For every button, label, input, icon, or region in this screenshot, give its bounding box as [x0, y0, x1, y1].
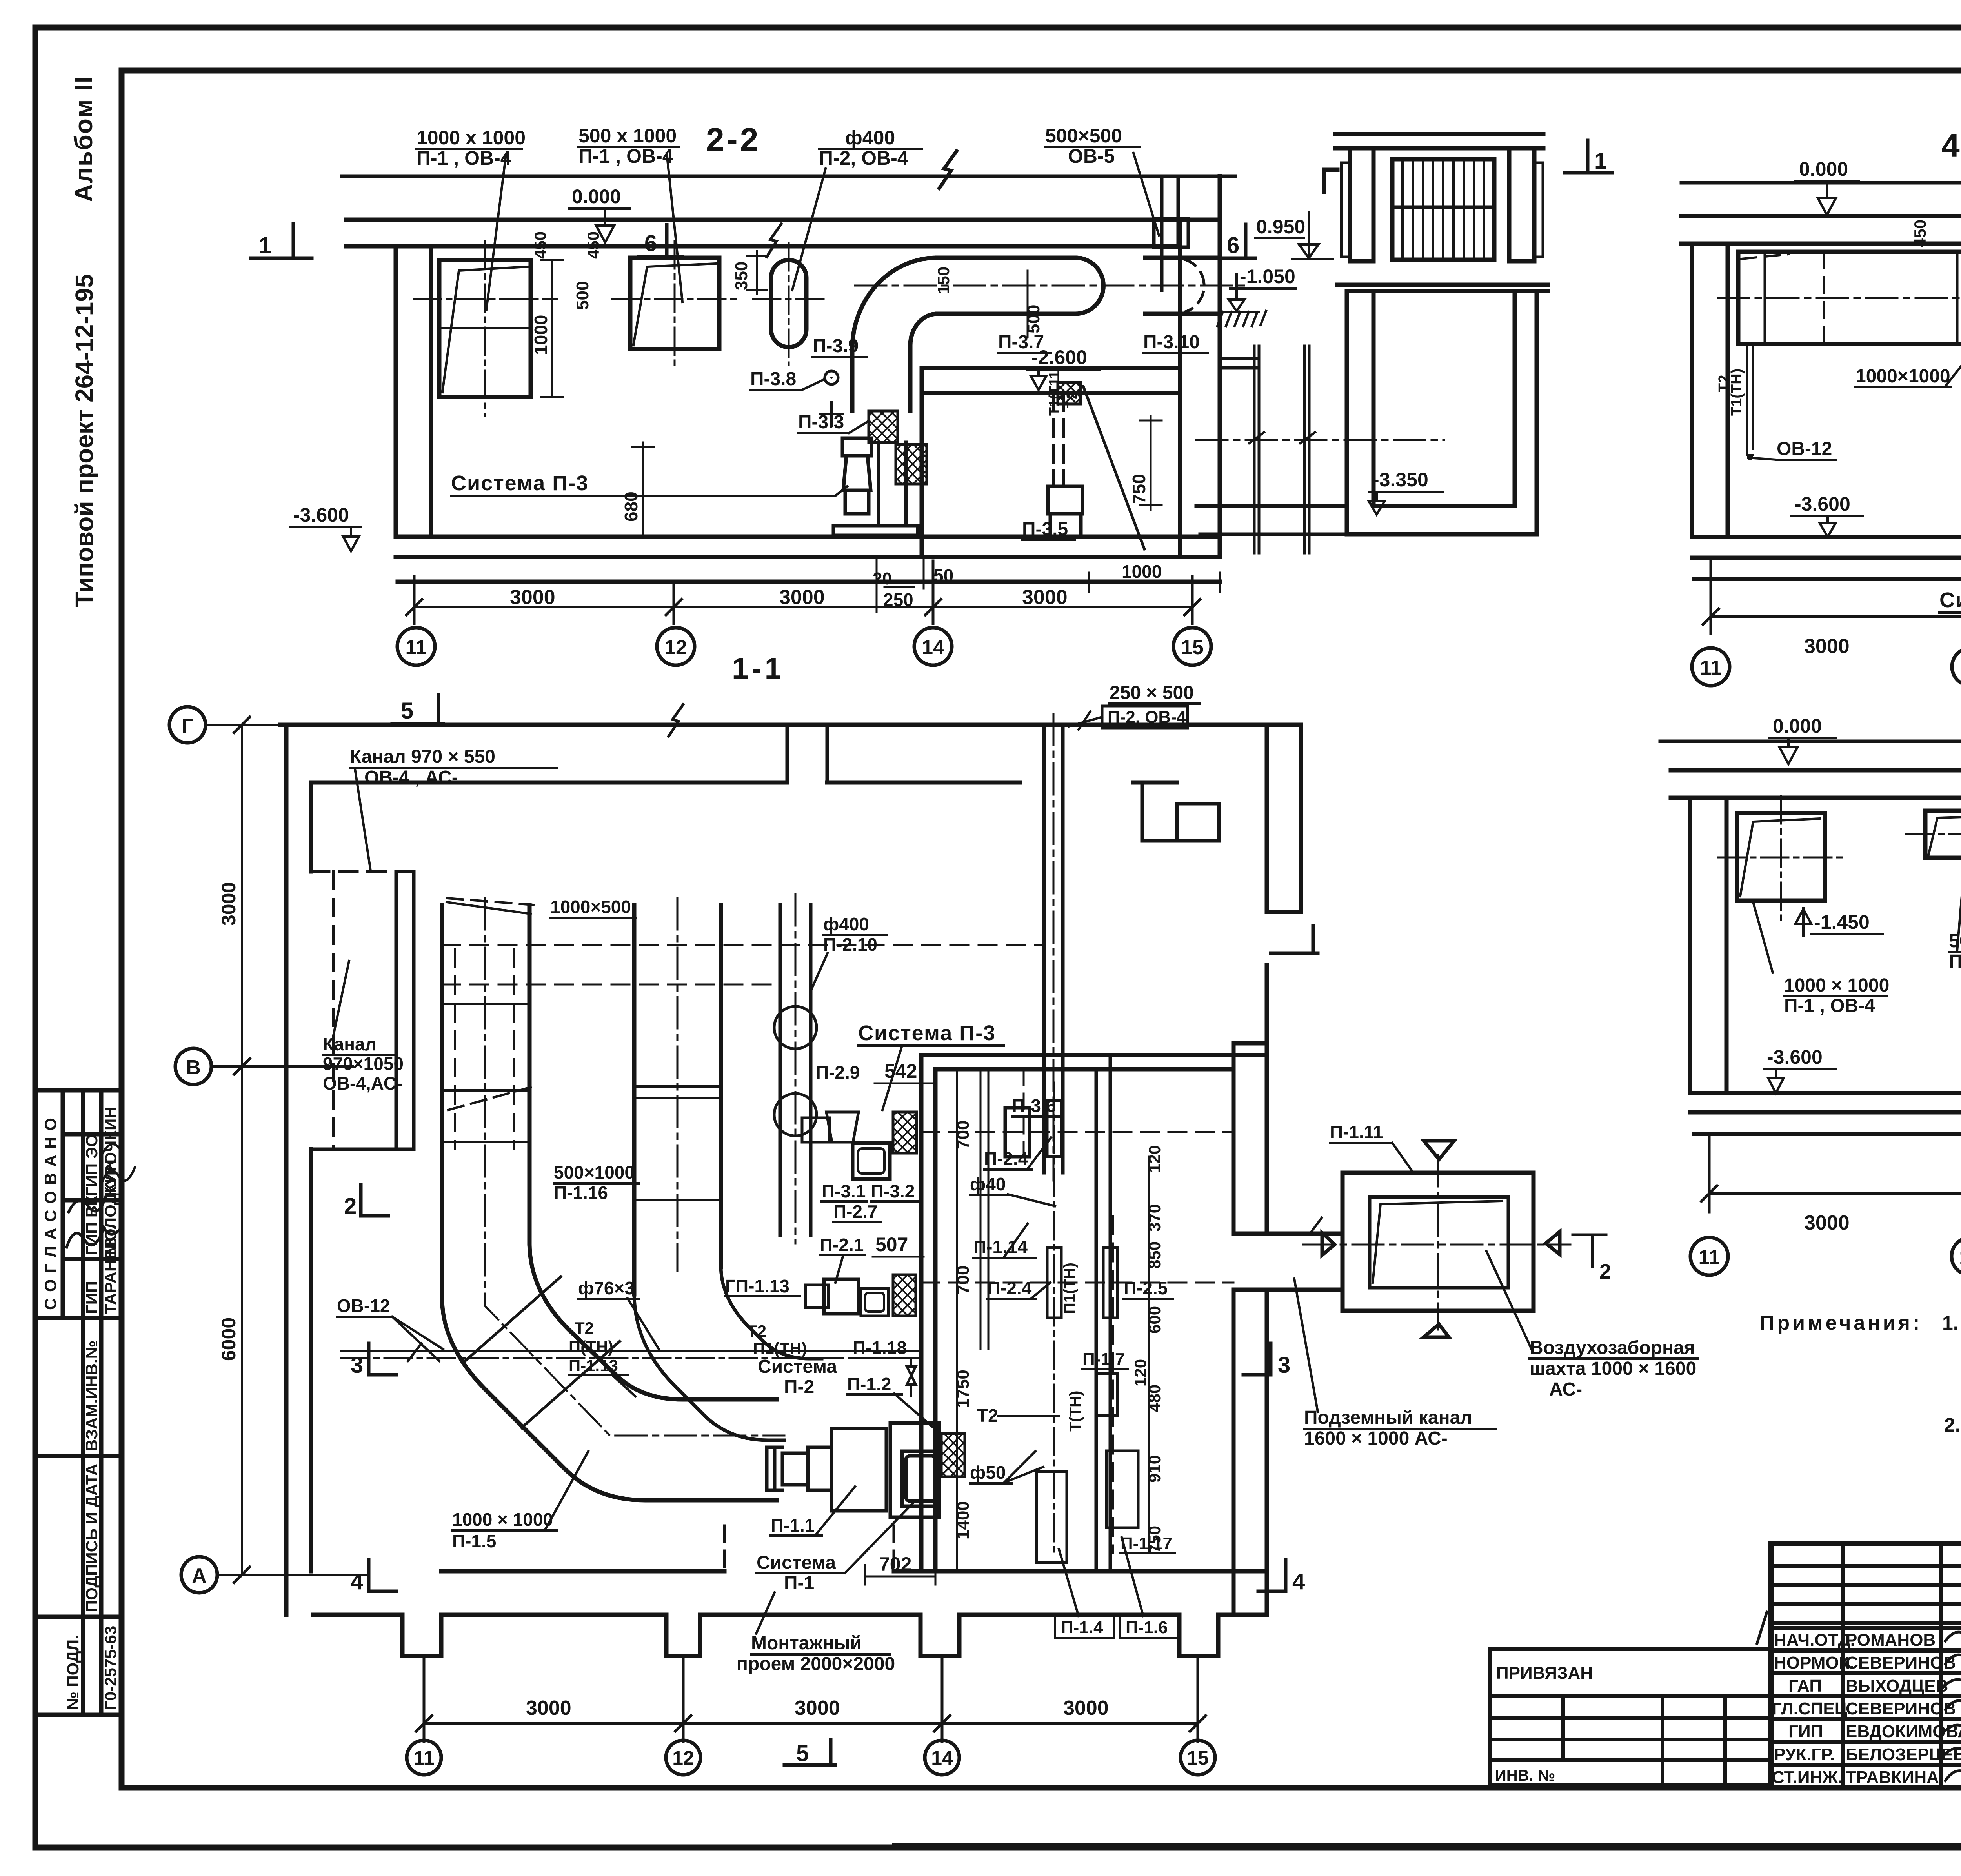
svg-text:П-2, ОВ-4: П-2, ОВ-4: [819, 147, 908, 169]
svg-text:50: 50: [933, 565, 953, 586]
svg-text:П-1 , ОВ-4: П-1 , ОВ-4: [417, 147, 511, 169]
svg-text:ГЛ.СПЕЦ.: ГЛ.СПЕЦ.: [1772, 1699, 1852, 1718]
svg-text:П-1.7: П-1.7: [1082, 1350, 1124, 1369]
svg-text:0.000: 0.000: [1773, 715, 1822, 737]
svg-text:-3.350: -3.350: [1373, 469, 1428, 491]
svg-text:370: 370: [1145, 1204, 1164, 1232]
svg-text:3000: 3000: [526, 1697, 571, 1720]
svg-text:1: 1: [1594, 148, 1607, 174]
left cut arrow: [1322, 1233, 1335, 1255]
filter hatch lower: [893, 1275, 916, 1316]
svg-text:ф400: ф400: [845, 127, 895, 149]
svg-text:2: 2: [344, 1194, 357, 1219]
svg-text:2: 2: [1599, 1260, 1611, 1283]
right room equipment: [1005, 1108, 1030, 1157]
svg-text:Примечания:: Примечания:: [1760, 1312, 1922, 1334]
OV-12 pipe: [1747, 344, 1753, 455]
top wall inner line: [311, 781, 1177, 785]
svg-text:600: 600: [1145, 1306, 1164, 1334]
svg-text:15: 15: [1181, 636, 1204, 659]
bottom triangle: [1424, 1324, 1449, 1337]
svg-text:1000 x 1000: 1000 x 1000: [417, 127, 526, 149]
svg-text:542: 542: [884, 1060, 917, 1082]
svg-text:П-2, ОВ-4: П-2, ОВ-4: [1108, 708, 1186, 727]
svg-text:15: 15: [1187, 1747, 1209, 1769]
slab break symbol: [767, 224, 781, 257]
svg-text:П-3.6: П-3.6: [1012, 1095, 1056, 1116]
svg-text:3: 3: [351, 1352, 363, 1378]
dim 1000 for intake1: [541, 260, 563, 397]
svg-text:2. ДАННЫЙ ЛИСТ РАССМАТРИВАТЬ: 2. ДАННЫЙ ЛИСТ РАССМАТРИВАТЬ СОВМЕСТНО: [1944, 1414, 1961, 1436]
svg-text:Воздухозаборная: Воздухозаборная: [1530, 1337, 1695, 1358]
svg-text:5: 5: [796, 1741, 809, 1766]
svg-text:П-2.10: П-2.10: [823, 934, 877, 955]
floor: [1690, 1093, 1961, 1134]
slab -2.600 of right room: [922, 368, 1180, 393]
centerlines: [1303, 1244, 1570, 1246]
svg-text:11: 11: [406, 636, 427, 659]
svg-text:1400: 1400: [953, 1501, 973, 1539]
P-3.5 boxes: [1048, 486, 1082, 514]
svg-text:20: 20: [873, 569, 892, 588]
flange circles: [774, 1006, 817, 1049]
shaft inner rect: [1370, 1197, 1508, 1288]
extra dashed axis in right room: [1023, 1069, 1025, 1157]
svg-text:Система: Система: [758, 1356, 837, 1377]
svg-text:500×500: 500×500: [1045, 125, 1122, 147]
dashed niche outline: [1741, 254, 1788, 259]
svg-text:П-2.5: П-2.5: [1124, 1278, 1168, 1298]
big duct bend: [442, 1298, 777, 1500]
filter P-3.3 hatched: [869, 411, 898, 442]
svg-text:П-3.8: П-3.8: [750, 369, 796, 389]
label f400 / P-2,OV-4: [819, 127, 908, 169]
svg-text:5: 5: [401, 698, 413, 724]
svg-text:П-1.5: П-1.5: [452, 1531, 496, 1551]
svg-text:1-1: 1-1: [732, 652, 784, 685]
floor: [1692, 537, 1961, 579]
side strips: [1341, 163, 1349, 257]
svg-text:П-1.1: П-1.1: [771, 1515, 815, 1536]
svg-text:Система П-1: Система П-1: [1939, 588, 1961, 612]
svg-text:ГП-1.13: ГП-1.13: [725, 1276, 789, 1296]
label 500x1000 / P-1, OV-4: [1949, 931, 1961, 972]
duct elbow vertical walls: [852, 345, 910, 411]
dim labels 3000: [1804, 1212, 1961, 1234]
svg-text:-3.600: -3.600: [1795, 493, 1850, 515]
svg-text:120: 120: [1145, 1145, 1164, 1173]
svg-text:12: 12: [1959, 1246, 1961, 1269]
svg-text:проем 2000×2000: проем 2000×2000: [737, 1654, 895, 1674]
svg-text:П-1.11: П-1.11: [1330, 1122, 1383, 1142]
duct P-1.16 bend: [634, 1294, 784, 1440]
plan axis circles: [407, 1740, 1215, 1775]
svg-text:12: 12: [672, 1747, 694, 1769]
roof line: [1681, 181, 1961, 185]
axis letter circle A: [181, 1557, 217, 1593]
label 500x1000 / P-1,OV-4: [578, 125, 677, 167]
filter hatch at fan outlet: [941, 1434, 965, 1477]
underground shaft walls: [1347, 291, 1537, 534]
svg-text:350: 350: [732, 262, 751, 290]
svg-text:450: 450: [584, 231, 602, 259]
left wall: [1692, 244, 1728, 537]
svg-text:1000: 1000: [531, 315, 551, 355]
duct f400 P-2.10: [780, 905, 811, 1236]
right wall segments: [1267, 725, 1301, 912]
svg-text:№ ПОДЛ.: № ПОДЛ.: [64, 1635, 82, 1710]
axis letter circle V: [175, 1048, 211, 1084]
slab 0.000 band: [1681, 216, 1961, 244]
shaft top cap: [1335, 134, 1543, 148]
svg-text:850: 850: [1145, 1241, 1164, 1269]
horizontal duct OV-5: [937, 258, 1075, 314]
axis circles: [1690, 1237, 1961, 1275]
signatures (squiggles): [1757, 1612, 1961, 1782]
dim 680: [632, 442, 654, 535]
channel centerline: [1196, 439, 1444, 441]
left post: [1350, 148, 1373, 261]
svg-text:СТ.ИНЖ.: СТ.ИНЖ.: [1772, 1768, 1843, 1787]
svg-text:Т2: Т2: [1064, 391, 1080, 408]
svg-text:В: В: [186, 1056, 201, 1079]
label 500x500 / OV-5: [1045, 125, 1122, 167]
title block outer: [1771, 1543, 1961, 1788]
svg-text:ГИП: ГИП: [82, 1281, 101, 1314]
building wall stub left: [1221, 358, 1256, 368]
P-3.5 hatch box: [1058, 382, 1081, 404]
svg-text:750: 750: [1145, 1526, 1164, 1553]
svg-text:ф400: ф400: [823, 914, 869, 934]
svg-text:970×1050: 970×1050: [323, 1054, 404, 1074]
svg-text:Подземный канал: Подземный канал: [1304, 1407, 1472, 1428]
svg-text:Система П-3: Система П-3: [858, 1021, 996, 1045]
svg-text:3000: 3000: [1022, 586, 1068, 609]
hidden canal dashed inside big duct: [455, 949, 514, 1149]
svg-text:СЕВЕРИНОВ: СЕВЕРИНОВ: [1846, 1653, 1956, 1672]
svg-text:480: 480: [1145, 1385, 1164, 1412]
svg-text:П-2.4: П-2.4: [988, 1278, 1032, 1298]
svg-text:П-1.14: П-1.14: [973, 1237, 1028, 1257]
duct f400 capsule: [771, 260, 806, 347]
staff captions: [1772, 1630, 1961, 1787]
axis letter circle G: [169, 707, 206, 743]
bend centerline: [485, 898, 784, 1436]
svg-text:4-4: 4-4: [1941, 127, 1961, 164]
svg-text:ф50: ф50: [970, 1462, 1006, 1483]
fan P-3 unit: [833, 438, 918, 535]
right cut arrow + T2: [1546, 1232, 1560, 1254]
ground hatch right: [1217, 311, 1266, 326]
svg-text:-1.450: -1.450: [1814, 911, 1870, 933]
svg-text:П-2: П-2: [784, 1377, 814, 1397]
shaft sill: [1337, 285, 1548, 291]
svg-text:П-2.9: П-2.9: [816, 1062, 860, 1083]
svg-text:П-1.6: П-1.6: [1126, 1618, 1168, 1637]
main dimension line: [414, 606, 1192, 608]
P-3.5 pipes: [1053, 393, 1064, 486]
svg-text:НАЧ.ОТД.: НАЧ.ОТД.: [1774, 1630, 1855, 1650]
svg-text:П-1 , ОВ-4: П-1 , ОВ-4: [578, 145, 673, 167]
svg-text:6000: 6000: [218, 1317, 240, 1361]
svg-text:ПРИВЯЗАН: ПРИВЯЗАН: [1496, 1663, 1593, 1683]
svg-text:АС-: АС-: [1549, 1379, 1582, 1400]
roof line: [1660, 740, 1961, 743]
svg-text:0.950: 0.950: [1256, 216, 1305, 238]
roof line: [342, 175, 1235, 178]
svg-text:2-2: 2-2: [706, 121, 760, 158]
elbow arcs: [852, 258, 937, 349]
underground channel walls: [1254, 346, 1309, 553]
shaft outer rect: [1343, 1173, 1534, 1311]
svg-text:1000 × 1000: 1000 × 1000: [1784, 975, 1889, 996]
main dimension line: [1711, 615, 1961, 618]
svg-text:3000: 3000: [1804, 1212, 1850, 1234]
filter 2 hatched: [896, 444, 927, 484]
svg-text:14: 14: [931, 1747, 953, 1769]
svg-text:507: 507: [875, 1234, 908, 1256]
svg-text:3000: 3000: [1063, 1697, 1109, 1720]
svg-text:3000: 3000: [795, 1697, 840, 1720]
svg-text:1750: 1750: [953, 1370, 973, 1408]
svg-text:-3.600: -3.600: [1767, 1046, 1823, 1068]
left wall: [1690, 798, 1726, 1093]
right wall: [1180, 176, 1220, 557]
svg-text:ОВ-4 , АС-: ОВ-4 , АС-: [364, 767, 458, 788]
svg-text:П1(ТН): П1(ТН): [753, 1339, 807, 1357]
shaft bottom slab: [1347, 506, 1537, 534]
slab band: [1671, 770, 1961, 798]
svg-text:П-1 , ОВ-4: П-1 , ОВ-4: [1784, 995, 1875, 1016]
svg-text:П-1: П-1: [784, 1573, 814, 1594]
svg-text:910: 910: [1145, 1455, 1164, 1483]
intake box B: [1925, 811, 1961, 858]
svg-text:ВЗАМ.ИНВ.№: ВЗАМ.ИНВ.№: [82, 1341, 101, 1451]
bend miter joints: [463, 1277, 620, 1428]
svg-text:700: 700: [953, 1266, 973, 1294]
svg-text:СЕВЕРИНОВ: СЕВЕРИНОВ: [1846, 1699, 1956, 1718]
svg-text:450: 450: [1911, 220, 1929, 247]
section mark 1 top right of plan: [1271, 926, 1318, 953]
svg-text:Система: Система: [757, 1552, 836, 1573]
staff table verticals: [1841, 1543, 1845, 1788]
svg-text:3000: 3000: [1804, 635, 1850, 658]
big duct P-1.5 vertical: [442, 905, 529, 1298]
svg-text:шахта 1000 × 1600: шахта 1000 × 1600: [1530, 1358, 1696, 1379]
svg-text:1: 1: [259, 233, 271, 258]
break marks: [1249, 432, 1315, 443]
right post: [1509, 148, 1534, 261]
niche right top: [1142, 782, 1219, 841]
floor slab 0.000: [346, 220, 1220, 246]
channel floor lines: [1196, 506, 1347, 534]
svg-text:ф40: ф40: [970, 1174, 1006, 1194]
svg-text:ИНВ. №: ИНВ. №: [1495, 1767, 1555, 1784]
dims right room column 2: [1148, 1157, 1150, 1553]
svg-text:А: А: [192, 1565, 207, 1587]
svg-text:ф76×3: ф76×3: [578, 1278, 635, 1298]
svg-text:-1.050: -1.050: [1240, 266, 1295, 287]
duct P-1.16 vertical: [634, 905, 721, 1294]
roof break symbol: [939, 151, 957, 188]
fan P-1.1 assembly: [767, 1423, 939, 1517]
svg-text:700: 700: [953, 1121, 973, 1149]
right room walls: [921, 1055, 935, 1571]
svg-text:120: 120: [1131, 1359, 1150, 1387]
label 1000x1000 / P-1,OV-4: [417, 127, 526, 169]
big duct 1000x1000: [1738, 252, 1961, 344]
vertical duct through roof at right: [1162, 176, 1178, 290]
svg-text:12: 12: [1959, 657, 1961, 679]
svg-text:Альбом ІІ: Альбом ІІ: [69, 75, 98, 202]
svg-text:1. ВСЕ МЕТАЛЛИЧЕСКИЕ ЧАСТИ: 1. ВСЕ МЕТАЛЛИЧЕСКИЕ ЧАСТИ УСТАНОВОК: [1942, 1312, 1961, 1334]
svg-text:С О Г Л А С О В А Н О: С О Г Л А С О В А Н О: [41, 1117, 60, 1310]
main dimension line: [1709, 1192, 1961, 1195]
svg-text:0.000: 0.000: [1799, 158, 1848, 180]
svg-text:Т2: Т2: [977, 1405, 998, 1426]
svg-text:НОРМОК.: НОРМОК.: [1774, 1653, 1854, 1672]
svg-text:500×1000: 500×1000: [554, 1162, 635, 1183]
air intake box 2: [630, 258, 719, 349]
svg-text:П-3.5: П-3.5: [1022, 519, 1068, 540]
svg-text:П-1.16: П-1.16: [554, 1183, 608, 1203]
svg-text:150: 150: [934, 267, 953, 294]
left table signatures: [67, 1196, 120, 1247]
svg-text:П-3.1: П-3.1: [822, 1181, 866, 1201]
axis circles: [397, 628, 1211, 665]
left wall: [396, 246, 431, 537]
svg-text:ОВ-12: ОВ-12: [1777, 439, 1832, 459]
bottom wall outer with pilasters: [313, 1615, 1267, 1656]
svg-text:1000: 1000: [1122, 561, 1162, 582]
section mark 1 top-left: [251, 224, 312, 258]
svg-text:Т(ТН): Т(ТН): [1067, 1391, 1084, 1432]
svg-text:11: 11: [1700, 657, 1722, 679]
filter hatch upper: [893, 1112, 917, 1153]
svg-text:П-3.3: П-3.3: [798, 412, 844, 433]
svg-text:П-2.4: П-2.4: [984, 1148, 1028, 1169]
svg-text:Т2: Т2: [575, 1319, 594, 1337]
svg-text:ОВ-5: ОВ-5: [1068, 145, 1115, 167]
svg-text:3: 3: [1278, 1352, 1290, 1378]
dims right room column 1: [956, 1069, 958, 1571]
svg-text:ГИП: ГИП: [1788, 1722, 1823, 1741]
svg-text:250 × 500: 250 × 500: [1110, 682, 1194, 703]
svg-text:П-2.7: П-2.7: [833, 1201, 877, 1222]
duct P-2 descending from top wall: [1044, 725, 1063, 1173]
svg-text:П-1.18: П-1.18: [853, 1337, 907, 1358]
svg-text:11: 11: [414, 1747, 435, 1769]
canal left inner wall: [396, 872, 414, 1149]
svg-text:РОМАНОВ: РОМАНОВ: [1846, 1630, 1936, 1650]
svg-text:0.000: 0.000: [572, 186, 621, 207]
corner mark G: [1324, 170, 1337, 192]
diagonal brace: [1083, 386, 1144, 549]
extra cluster detail: T-pipes vertical near P-2: [980, 1069, 988, 1349]
air intake box 1: [439, 260, 531, 397]
svg-text:Т2: Т2: [747, 1322, 766, 1340]
svg-text:1000×500: 1000×500: [550, 897, 631, 917]
svg-text:ВЫХОДЦЕВ: ВЫХОДЦЕВ: [1846, 1676, 1948, 1696]
svg-text:500: 500: [573, 281, 592, 310]
dashed inner lines top area: [442, 944, 1043, 946]
dim labels 3000: [510, 586, 1068, 609]
svg-text:3000: 3000: [510, 586, 555, 609]
left wall: [286, 725, 311, 1615]
svg-text:450: 450: [531, 231, 549, 259]
intake box A: [1737, 813, 1825, 901]
svg-text:Г: Г: [182, 715, 193, 737]
svg-text:РУК.ГР.: РУК.ГР.: [1774, 1745, 1835, 1764]
svg-text:11: 11: [1699, 1246, 1720, 1269]
svg-text:П1(ТН): П1(ТН): [1061, 1263, 1078, 1314]
floor slab -3.600: [396, 537, 1220, 582]
vertical dim line left: [241, 725, 243, 1575]
svg-text:П(ТН): П(ТН): [569, 1337, 613, 1356]
canal hidden dashed: [332, 872, 335, 1149]
dim labels 3000 below: [1804, 635, 1961, 658]
svg-text:12: 12: [664, 636, 687, 659]
upper cluster: flare P-2.9: [826, 1112, 859, 1142]
labels P-1.4 P-1.6 boxed: [1055, 1616, 1114, 1638]
duct centerline: [855, 285, 1247, 287]
svg-text:Монтажный: Монтажный: [751, 1633, 862, 1654]
svg-text:ТРАВКИНА: ТРАВКИНА: [1846, 1768, 1939, 1787]
flex connector P-3.2: [853, 1143, 890, 1179]
bottom wall inner: [441, 1569, 1267, 1574]
svg-text:680: 680: [621, 491, 641, 522]
svg-text:Типовой проект 264-12-195: Типовой проект 264-12-195: [70, 274, 98, 607]
svg-text:П-2.1: П-2.1: [820, 1235, 864, 1255]
top triangle: [1424, 1141, 1454, 1159]
svg-text:ОВ-12: ОВ-12: [337, 1296, 390, 1316]
svg-text:Канал 970 × 550: Канал 970 × 550: [350, 746, 495, 767]
svg-text:Г0-2575-63: Г0-2575-63: [101, 1626, 120, 1710]
svg-text:П-1.4: П-1.4: [1061, 1618, 1103, 1637]
svg-text:1000 × 1000: 1000 × 1000: [452, 1509, 553, 1530]
top wall outer line: [280, 723, 1301, 727]
damper in big duct top: [447, 902, 531, 914]
svg-text:1000×1000: 1000×1000: [1855, 366, 1950, 387]
svg-text:-3.600: -3.600: [293, 504, 349, 526]
svg-text:6: 6: [644, 231, 657, 256]
svg-text:14: 14: [922, 636, 944, 659]
heating pipes T2 across: [341, 1350, 921, 1352]
level -1.450: [1795, 908, 1811, 935]
duct to shaft through wall: [1233, 1234, 1343, 1290]
svg-text:ОВ-4,АС-: ОВ-4,АС-: [323, 1073, 402, 1094]
staff table rows: [1771, 1564, 1961, 1568]
dim 750: [1140, 416, 1162, 510]
svg-text:Т2: Т2: [1716, 375, 1732, 392]
svg-text:3000: 3000: [779, 586, 825, 609]
svg-text:702: 702: [879, 1553, 911, 1575]
svg-text:500 x 1000: 500 x 1000: [578, 125, 677, 147]
left approval table: [36, 1090, 122, 1715]
svg-text:Канал: Канал: [323, 1034, 377, 1054]
svg-text:-2.600: -2.600: [1031, 346, 1087, 368]
svg-text:4: 4: [1292, 1569, 1305, 1594]
svg-text:П-1.13: П-1.13: [569, 1356, 618, 1375]
svg-text:6: 6: [1227, 233, 1239, 258]
left table rotated captions: [41, 1106, 120, 1710]
svg-text:750: 750: [1129, 474, 1149, 504]
dashed centerlines right room: [921, 1131, 1233, 1133]
louver grille: [1392, 159, 1494, 260]
svg-text:Т1(Т11): Т1(Т11): [1046, 366, 1062, 416]
svg-text:П-3.9: П-3.9: [813, 336, 859, 357]
svg-text:4: 4: [351, 1569, 363, 1594]
